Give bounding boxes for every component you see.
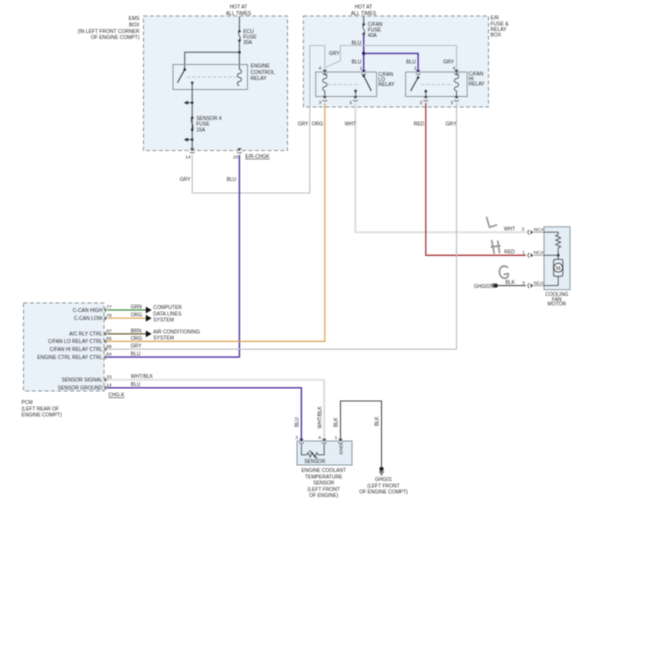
EMS box label bbox=[78, 16, 140, 41]
svg-text:4: 4 bbox=[453, 65, 456, 70]
svg-text:C/FAN LO RELAY CTRL: C/FAN LO RELAY CTRL bbox=[48, 339, 103, 345]
svg-text:GHG01: GHG01 bbox=[375, 477, 392, 483]
svg-text:14: 14 bbox=[106, 382, 112, 387]
svg-text:AIR CONDITIONING: AIR CONDITIONING bbox=[153, 329, 200, 335]
svg-text:GRY: GRY bbox=[329, 51, 340, 57]
wire BLK from sensor pin 1 to ground GHG01 bbox=[341, 401, 382, 467]
svg-text:OF ENGINE): OF ENGINE) bbox=[309, 493, 339, 499]
PCM pin 78 C-CAN LOW bbox=[74, 313, 142, 322]
PCM pin 64 ENGINE CTRL RELAY CTRL bbox=[37, 352, 141, 361]
handwritten letter H bbox=[491, 241, 500, 254]
svg-text:(IN LEFT FRONT CORNER: (IN LEFT FRONT CORNER bbox=[78, 29, 140, 35]
svg-text:ENGINE CTRL RELAY CTRL: ENGINE CTRL RELAY CTRL bbox=[37, 355, 102, 361]
svg-text:EMS: EMS bbox=[129, 16, 141, 22]
svg-text:HOT AT: HOT AT bbox=[230, 5, 248, 11]
svg-text:SENSOR: SENSOR bbox=[313, 481, 335, 487]
pin 10 connector at EMS box edge bbox=[233, 148, 242, 159]
svg-text:1: 1 bbox=[414, 65, 417, 70]
svg-text:C-CAN HIGH: C-CAN HIGH bbox=[73, 308, 103, 314]
svg-text:40A: 40A bbox=[368, 33, 378, 39]
svg-text:3: 3 bbox=[319, 100, 322, 105]
svg-text:SYSTEM: SYSTEM bbox=[153, 336, 174, 342]
relay box ENGINE CONTROL RELAY bbox=[173, 65, 248, 90]
wire RED from HI relay pin 2 to motor pin 1 bbox=[426, 103, 526, 255]
HI relay coil bbox=[454, 72, 458, 96]
wire BRN to air conditioning bbox=[108, 331, 152, 338]
handwritten letter G bbox=[499, 266, 508, 278]
svg-text:2: 2 bbox=[420, 100, 423, 105]
svg-text:87: 87 bbox=[106, 329, 112, 334]
svg-text:ORG: ORG bbox=[131, 336, 143, 342]
svg-text:MOTOR: MOTOR bbox=[548, 302, 567, 308]
LO relay coil bbox=[323, 72, 327, 96]
HI relay pin 1 connector bbox=[414, 65, 421, 74]
motor pin 3 with NCA connector bbox=[522, 280, 544, 288]
ground GHG01 bbox=[379, 467, 384, 475]
wire relay switch output down bbox=[191, 83, 193, 149]
wire battery feed into E/R box bbox=[363, 17, 365, 25]
fuse ECU FUSE 30A bbox=[238, 29, 257, 46]
svg-text:2: 2 bbox=[522, 227, 525, 232]
LO relay pin 4 connector bbox=[319, 65, 328, 74]
fuse C/FAN FUSE 40A bbox=[362, 22, 383, 39]
svg-text:WHT: WHT bbox=[504, 227, 515, 233]
svg-text:30A: 30A bbox=[243, 40, 253, 46]
LO relay switch bbox=[354, 75, 371, 97]
svg-text:WHT: WHT bbox=[345, 121, 356, 127]
motor internal wire top bbox=[544, 232, 558, 234]
motor M symbol bbox=[554, 259, 563, 276]
HI relay dashed link bbox=[421, 84, 453, 86]
PCM pin 33 SENSOR SIGNAL bbox=[62, 374, 154, 383]
motor internal wire to node bbox=[557, 248, 559, 259]
wire BLU from PCM pin 14 to sensor pin 3 bbox=[107, 388, 301, 440]
svg-text:RED: RED bbox=[504, 250, 515, 256]
node branch arrow upper bbox=[184, 101, 194, 105]
svg-text:C/FAN HI RELAY CTRL: C/FAN HI RELAY CTRL bbox=[50, 347, 103, 353]
svg-text:ORG: ORG bbox=[312, 121, 324, 127]
svg-text:BOX: BOX bbox=[491, 33, 502, 39]
svg-text:M: M bbox=[556, 266, 561, 272]
wire GRY net from EMS pin 14 to relay coils bbox=[192, 46, 456, 194]
wire BLK ground to motor pin 3 bbox=[498, 285, 526, 287]
wire WHT from LO relay pin 2 to motor pin 2 bbox=[355, 103, 525, 232]
motor pin 1 with NCA connector bbox=[522, 250, 544, 258]
sensor pin 4 connector bbox=[318, 435, 326, 443]
node branch arrow lower bbox=[184, 138, 194, 142]
relay internal dashed link bbox=[187, 76, 236, 78]
label ENGINE CONTROL RELAY bbox=[251, 64, 276, 82]
node junction dot on BLU bbox=[362, 52, 365, 55]
svg-text:BLK: BLK bbox=[375, 416, 381, 426]
svg-text:78: 78 bbox=[106, 313, 112, 318]
fuse SENSOR 4 FUSE 15A bbox=[191, 116, 222, 134]
motor internal wire red feed bbox=[544, 254, 558, 256]
svg-text:RED: RED bbox=[414, 121, 425, 127]
wire GRY from HI relay pin 3 down to PCM pin 88 bbox=[107, 103, 457, 349]
PCM pin 77 C-CAN HIGH bbox=[73, 304, 143, 313]
svg-text:ENGINE COOLANT: ENGINE COOLANT bbox=[301, 468, 346, 474]
wire WHT/BLK from PCM pin 33 to sensor pin 4 bbox=[107, 380, 324, 440]
svg-text:A/C RLY CTRL: A/C RLY CTRL bbox=[69, 332, 103, 338]
relay box C/FAN HI RELAY bbox=[406, 72, 468, 97]
pin 14 connector at EMS box edge bbox=[185, 148, 194, 159]
svg-text:(LEFT REAR OF: (LEFT REAR OF bbox=[22, 406, 59, 412]
svg-text:CONTROL: CONTROL bbox=[251, 70, 276, 76]
svg-text:77: 77 bbox=[106, 305, 112, 310]
PCM pin 65 C/FAN LO RELAY CTRL bbox=[48, 336, 142, 345]
svg-text:ALL TIMES: ALL TIMES bbox=[226, 11, 252, 17]
svg-text:33: 33 bbox=[106, 374, 112, 379]
label C/FAN HI RELAY bbox=[469, 72, 486, 88]
svg-text:NCA: NCA bbox=[534, 250, 545, 255]
svg-text:BLU: BLU bbox=[227, 177, 237, 183]
svg-text:GRY: GRY bbox=[131, 344, 142, 350]
svg-text:BLU: BLU bbox=[131, 352, 141, 358]
label C/FAN LO RELAY bbox=[378, 72, 395, 88]
PCM pin 88 C/FAN HI RELAY CTRL bbox=[50, 344, 143, 353]
LO relay pin 1 connector bbox=[360, 65, 366, 74]
relay coil (engine control relay) bbox=[237, 70, 241, 86]
svg-text:OF ENGINE COMPT): OF ENGINE COMPT) bbox=[359, 490, 408, 496]
svg-text:E/R-CHGK: E/R-CHGK bbox=[245, 154, 270, 160]
svg-text:4: 4 bbox=[319, 65, 322, 70]
label ENGINE COOLANT TEMPERATURE SENSOR bbox=[301, 468, 346, 499]
sensor thermistor bbox=[301, 445, 324, 459]
ground GHG02 bbox=[474, 283, 498, 290]
relay box C/FAN LO RELAY bbox=[316, 72, 377, 97]
svg-text:4: 4 bbox=[318, 435, 321, 440]
wire fuse to junction bbox=[238, 41, 240, 70]
svg-text:BLU: BLU bbox=[295, 417, 301, 427]
svg-text:OF ENGINE COMPT): OF ENGINE COMPT) bbox=[91, 35, 140, 41]
motor box COOLING FAN MOTOR bbox=[544, 227, 570, 290]
sensor pin 1 connector bbox=[335, 435, 343, 443]
HI relay pin 3 connector bbox=[450, 96, 459, 105]
sensor box outline bbox=[297, 441, 352, 465]
motor pin 2 with NCA connector bbox=[522, 227, 545, 235]
HI relay pin 2 connector bbox=[420, 96, 428, 105]
handwritten letter L bbox=[487, 218, 497, 228]
svg-text:HOT AT: HOT AT bbox=[355, 5, 373, 11]
wire junction to relay switch bbox=[185, 52, 240, 69]
svg-text:TEMPERATURE: TEMPERATURE bbox=[305, 474, 343, 480]
svg-text:3: 3 bbox=[295, 435, 298, 440]
label COOLING FAN MOTOR bbox=[545, 292, 568, 307]
svg-text:10: 10 bbox=[233, 155, 239, 160]
svg-text:SENSOR: SENSOR bbox=[304, 459, 326, 465]
svg-text:88: 88 bbox=[106, 344, 112, 349]
svg-text:1: 1 bbox=[335, 435, 338, 440]
svg-text:ENGINE COMPT): ENGINE COMPT) bbox=[22, 412, 63, 418]
motor internal node dot bbox=[557, 254, 560, 257]
wire ORG to computer data lines bbox=[108, 315, 152, 322]
sensor pin 3 connector bbox=[295, 435, 303, 443]
motor internal wire bottom bbox=[544, 276, 558, 285]
svg-text:2: 2 bbox=[349, 100, 352, 105]
svg-text:15A: 15A bbox=[196, 128, 206, 134]
E/R fuse and relay box outline bbox=[303, 16, 488, 107]
HI relay switch bbox=[411, 76, 428, 96]
svg-text:1: 1 bbox=[360, 65, 363, 70]
PCM label bbox=[22, 400, 63, 418]
svg-text:BLK: BLK bbox=[505, 280, 515, 286]
label HOT AT ALL TIMES (right) bbox=[351, 5, 377, 17]
relay switch (engine control relay) bbox=[177, 68, 193, 84]
svg-text:65: 65 bbox=[106, 336, 112, 341]
svg-text:64: 64 bbox=[106, 352, 112, 357]
svg-text:14: 14 bbox=[185, 155, 191, 160]
svg-text:PCM: PCM bbox=[22, 400, 33, 406]
node junction dot below ECU fuse bbox=[238, 51, 241, 54]
PCM pin 87 A/C RLY CTRL bbox=[69, 328, 142, 337]
svg-text:GHG02: GHG02 bbox=[474, 284, 491, 290]
svg-text:RELAY: RELAY bbox=[469, 82, 486, 88]
svg-text:3: 3 bbox=[450, 100, 453, 105]
svg-text:WHT/BLK: WHT/BLK bbox=[317, 406, 323, 429]
svg-text:C-CAN LOW: C-CAN LOW bbox=[74, 316, 103, 322]
EMS box (fuse/relay box outline) bbox=[144, 16, 288, 151]
LO relay pin 3 connector bbox=[319, 96, 328, 105]
svg-text:SENSOR GROUND: SENSOR GROUND bbox=[58, 386, 103, 392]
svg-text:GRY: GRY bbox=[298, 121, 309, 127]
wire GRN to computer data lines bbox=[108, 307, 152, 314]
svg-text:SENSOR SIGNAL: SENSOR SIGNAL bbox=[62, 378, 103, 384]
svg-text:ALL TIMES: ALL TIMES bbox=[351, 11, 377, 17]
svg-text:GND: GND bbox=[338, 443, 343, 454]
PCM pin 14 SENSOR GROUND bbox=[58, 382, 141, 391]
svg-text:1: 1 bbox=[522, 250, 525, 255]
LO relay dashed link bbox=[328, 84, 360, 86]
wire BLU from EMS pin 10 down to PCM pin 64 bbox=[107, 155, 239, 357]
svg-text:GRY: GRY bbox=[446, 121, 457, 127]
motor internal resistor bbox=[556, 235, 561, 248]
wire BLU fuse down to LO relay pin 1 bbox=[363, 34, 365, 69]
label HOT AT ALL TIMES (left) bbox=[226, 5, 252, 17]
label GHG01 bbox=[359, 477, 408, 496]
svg-text:CHG-K: CHG-K bbox=[108, 393, 125, 399]
HI relay pin 4 connector bbox=[453, 65, 459, 74]
wire battery feed into EMS box bbox=[238, 17, 240, 32]
label COMPUTER DATA LINES SYSTEM bbox=[153, 305, 182, 323]
svg-text:BOX: BOX bbox=[129, 23, 140, 29]
svg-text:3: 3 bbox=[522, 280, 525, 285]
svg-text:(LEFT FRONT: (LEFT FRONT bbox=[367, 483, 399, 489]
svg-text:NCA: NCA bbox=[534, 280, 545, 285]
PCM box outline bbox=[24, 303, 105, 391]
svg-text:DATA LINES: DATA LINES bbox=[153, 311, 182, 317]
svg-text:NCA: NCA bbox=[534, 227, 545, 232]
svg-text:BLK: BLK bbox=[334, 417, 340, 427]
E/R box label bbox=[491, 16, 510, 39]
svg-text:GRY: GRY bbox=[180, 177, 191, 183]
wire ORG from LO relay pin 3 down to PCM pin 65 bbox=[107, 103, 325, 341]
svg-text:RELAY: RELAY bbox=[251, 76, 268, 82]
svg-text:SYSTEM: SYSTEM bbox=[153, 318, 174, 324]
svg-text:(LEFT FRONT: (LEFT FRONT bbox=[307, 487, 339, 493]
svg-text:RELAY: RELAY bbox=[378, 82, 395, 88]
label AIR CONDITIONING SYSTEM bbox=[153, 329, 200, 341]
svg-text:ENGINE: ENGINE bbox=[251, 64, 271, 70]
wire BLU branch to HI relay pin 1 bbox=[364, 53, 418, 69]
svg-text:COMPUTER: COMPUTER bbox=[153, 305, 182, 311]
LO relay pin 2 connector bbox=[349, 96, 357, 105]
